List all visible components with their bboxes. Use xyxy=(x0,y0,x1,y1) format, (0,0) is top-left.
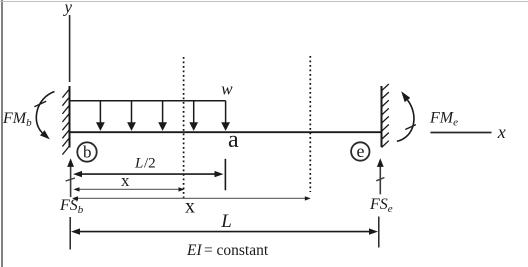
moment arrow FM_e (arc) xyxy=(397,91,414,141)
svg-text:L: L xyxy=(134,156,143,172)
node e circle xyxy=(351,141,369,161)
y axis xyxy=(69,15,71,82)
dotted line 2 xyxy=(309,56,311,192)
svg-text:a: a xyxy=(228,127,239,153)
FM_b arc tick xyxy=(34,101,46,107)
moment arrow FM_b (arc) xyxy=(36,92,54,140)
left fixed support wall xyxy=(69,86,71,148)
svg-text:EI: EI xyxy=(186,242,202,259)
svg-text:e: e xyxy=(357,141,365,161)
x dim 2 label xyxy=(185,196,195,218)
svg-text:constant: constant xyxy=(217,242,269,259)
x dimension line 1 xyxy=(74,187,185,191)
svg-text:b: b xyxy=(83,142,92,161)
L left extension line xyxy=(69,217,71,250)
load arrow 2 xyxy=(127,101,136,131)
x axis segment xyxy=(430,132,491,134)
load arrow 1 xyxy=(96,101,105,131)
L/2 dimension line xyxy=(73,171,224,177)
load label w xyxy=(221,80,233,99)
FS_e label xyxy=(369,196,393,215)
right fixed support wall xyxy=(381,86,383,147)
L label xyxy=(220,211,232,232)
distributed load top line xyxy=(70,100,226,102)
x dim 1 label xyxy=(121,171,130,190)
dotted line 1 (at x of point a region) xyxy=(183,57,185,199)
right wall hatching xyxy=(382,84,389,148)
load arrow 4 xyxy=(189,101,198,131)
L/2 label xyxy=(134,156,156,172)
FM_e arc tick xyxy=(405,125,416,130)
shear arrow FS_b xyxy=(67,158,74,197)
svg-text:y: y xyxy=(63,0,73,16)
FM_e label xyxy=(429,110,458,129)
svg-text:L: L xyxy=(220,211,232,232)
FS_e tick xyxy=(376,178,384,181)
svg-text:w: w xyxy=(221,80,233,99)
svg-text:/2: /2 xyxy=(144,156,156,172)
beam xyxy=(70,131,382,133)
load arrow 3 xyxy=(158,101,167,131)
FS_b label xyxy=(59,197,84,216)
EI = constant label xyxy=(186,242,269,259)
x dimension line 2 xyxy=(72,196,311,200)
svg-text:x: x xyxy=(497,122,506,142)
L right extension line xyxy=(378,217,380,248)
shear arrow FS_e xyxy=(377,158,384,194)
svg-text:x: x xyxy=(185,196,195,218)
load arrow 5 (right end of load) xyxy=(221,101,230,131)
L/2 right extension bar xyxy=(224,159,226,191)
left wall hatching xyxy=(62,89,69,155)
FM_b label xyxy=(2,110,32,129)
y axis label xyxy=(63,0,73,16)
svg-text:x: x xyxy=(121,171,130,190)
node a label xyxy=(228,127,239,153)
left page border line xyxy=(1,0,3,267)
node b circle xyxy=(77,142,96,161)
x axis label xyxy=(497,122,506,142)
L dimension line xyxy=(71,228,378,234)
top faint border line xyxy=(0,1,528,3)
FS_b tick xyxy=(66,178,75,181)
svg-text:=: = xyxy=(204,242,213,259)
